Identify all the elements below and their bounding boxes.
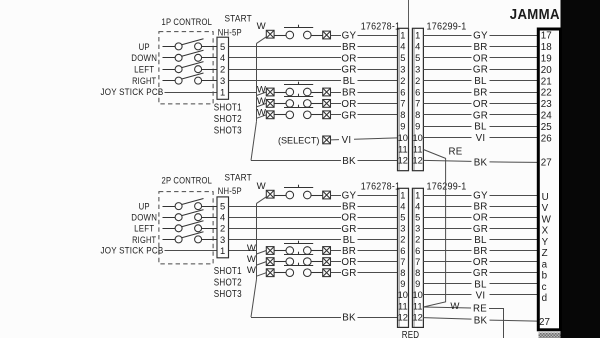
svg-text:11: 11 [398, 301, 408, 311]
wire RE exit to bottom edge [503, 308, 505, 338]
svg-text:2: 2 [400, 235, 405, 245]
svg-text:7: 7 [400, 99, 405, 109]
wire GR pin 8 to JAMMA b (2P) [423, 272, 471, 274]
svg-text:9: 9 [415, 279, 420, 289]
svg-text:2: 2 [415, 235, 420, 245]
svg-text:10: 10 [398, 133, 408, 143]
svg-text:SHOT1: SHOT1 [214, 266, 242, 277]
svg-text:OR: OR [341, 257, 356, 268]
wire OR joystick row pin 5 (2P) [229, 217, 342, 219]
svg-text:BL: BL [474, 279, 487, 290]
svg-text:7: 7 [415, 99, 420, 109]
wire BR pin 6 to JAMMA Z (2P) [423, 250, 471, 252]
svg-text:23: 23 [541, 99, 552, 110]
svg-text:GY: GY [342, 31, 357, 42]
push button SHOT3 (1P) [274, 105, 322, 119]
svg-text:a: a [542, 259, 548, 270]
svg-text:20: 20 [541, 65, 552, 76]
svg-text:BR: BR [342, 88, 356, 99]
svg-text:2: 2 [415, 76, 420, 86]
svg-text:9: 9 [400, 279, 405, 289]
svg-text:W: W [257, 107, 267, 118]
svg-text:6: 6 [400, 246, 405, 256]
wire GR pin 8 to JAMMA 24 (1P) [423, 114, 471, 116]
svg-text:X: X [542, 226, 549, 237]
svg-text:d: d [542, 293, 547, 304]
switch RIGHT (1P) [163, 73, 218, 84]
svg-text:2P CONTROL: 2P CONTROL [162, 176, 213, 187]
svg-text:12: 12 [413, 156, 423, 166]
connector NH-5P (1P) [217, 37, 229, 99]
svg-text:U: U [542, 192, 549, 203]
wire OR pin 5 to JAMMA 19 (1P) [423, 57, 471, 59]
wire BK 1P pin 12 to JAMMA 27 [423, 160, 471, 161]
svg-text:5: 5 [220, 201, 225, 212]
svg-text:GR: GR [473, 268, 488, 279]
wire 2P pin 11 to RE exit [423, 307, 471, 308]
svg-text:5: 5 [415, 213, 420, 223]
svg-text:9: 9 [415, 122, 420, 132]
wire GY pin 1 to JAMMA U (2P) [423, 195, 471, 197]
splice shot1-b (1P) [323, 88, 331, 96]
svg-text:JAMMA: JAMMA [510, 6, 560, 23]
svg-text:W: W [257, 181, 267, 192]
svg-text:19: 19 [541, 54, 552, 65]
svg-text:18: 18 [541, 42, 552, 53]
svg-text:1: 1 [220, 86, 225, 97]
splice shot2-b (2P) [323, 258, 331, 266]
svg-text:OR: OR [473, 213, 488, 224]
svg-text:4: 4 [220, 52, 225, 63]
svg-text:BL: BL [343, 76, 356, 87]
svg-text:BK: BK [474, 316, 488, 327]
svg-text:GY: GY [342, 191, 357, 202]
switch LEFT (1P) [163, 62, 218, 73]
wire VI to connector pin 10 [331, 139, 339, 141]
svg-text:10: 10 [413, 290, 423, 300]
svg-text:JOY STICK PCB: JOY STICK PCB [101, 87, 164, 98]
svg-text:3: 3 [220, 234, 225, 245]
svg-text:VI: VI [476, 290, 486, 301]
svg-text:BL: BL [474, 122, 487, 133]
JAMMA edge connector strip [538, 29, 560, 330]
svg-text:9: 9 [400, 122, 405, 132]
connector 176278-1 (2P) [398, 188, 409, 327]
svg-text:OR: OR [473, 257, 488, 268]
wire GY pin 1 to JAMMA 17 (1P) [423, 35, 471, 37]
wire BL pin 9 to JAMMA c (2P) [423, 283, 471, 285]
svg-text:START: START [224, 14, 252, 25]
svg-text:LEFT: LEFT [134, 65, 154, 76]
svg-text:SHOT3: SHOT3 [214, 126, 242, 137]
svg-text:NH-5P: NH-5P [218, 186, 242, 197]
svg-text:8: 8 [400, 268, 405, 278]
svg-text:6: 6 [400, 87, 405, 97]
svg-text:176299-1: 176299-1 [427, 182, 467, 193]
svg-text:11: 11 [413, 144, 423, 154]
svg-text:W: W [450, 301, 460, 312]
splice start-a (1P) [266, 30, 274, 38]
svg-text:BK: BK [474, 157, 488, 168]
svg-text:GY: GY [473, 31, 488, 42]
svg-text:24: 24 [541, 111, 552, 122]
svg-text:GR: GR [341, 110, 356, 121]
wire GR to connector pin 8 (2P) [331, 272, 341, 274]
push button SHOT2 (2P) [274, 252, 322, 266]
wire BL pin 2 to JAMMA Y (2P) [423, 239, 471, 241]
svg-text:BR: BR [342, 42, 356, 53]
svg-text:SHOT2: SHOT2 [214, 278, 242, 289]
svg-text:2: 2 [400, 76, 405, 86]
svg-text:1: 1 [400, 190, 405, 200]
wire BL joystick row pin 2 (1P) [229, 80, 342, 82]
svg-text:10: 10 [413, 133, 423, 143]
splice select [323, 136, 331, 144]
splice shot2-a (1P) [266, 100, 274, 108]
joystick enclosure dashed box (1P) [159, 32, 213, 104]
svg-text:1: 1 [400, 30, 405, 40]
splice start-a (2P) [266, 190, 274, 198]
svg-text:DOWN: DOWN [131, 53, 157, 64]
wire joystick common / pin 1 (1P) [165, 92, 218, 94]
svg-text:GR: GR [341, 65, 356, 76]
svg-text:3: 3 [400, 224, 405, 234]
ground bus (1P) [251, 37, 266, 161]
wire VI pin 10 to JAMMA 26 (1P) [423, 137, 471, 139]
svg-text:5: 5 [220, 41, 225, 52]
svg-text:4: 4 [415, 42, 420, 52]
svg-text:3: 3 [220, 75, 225, 86]
wire GR joystick row pin 3 (2P) [229, 228, 342, 230]
wire BR to connector pin 6 (1P) [331, 92, 341, 94]
wire off-page (top, between connector labels) [408, 0, 410, 28]
splice shot1-b (2P) [323, 247, 331, 255]
wire BK ground to pin 12 (1P) [251, 160, 341, 162]
svg-text:GY: GY [473, 191, 488, 202]
svg-text:RE: RE [449, 147, 463, 158]
svg-text:START: START [224, 172, 252, 183]
splice shot3-b (1P) [323, 111, 331, 119]
svg-text:BK: BK [342, 156, 356, 167]
svg-text:W: W [247, 243, 257, 254]
connector 176299-1 (1P) [412, 28, 423, 170]
svg-text:26: 26 [541, 133, 552, 144]
svg-text:21: 21 [541, 76, 552, 87]
svg-text:4: 4 [415, 201, 420, 211]
wire BL pin 9 to JAMMA 25 (1P) [423, 126, 471, 128]
svg-text:GR: GR [473, 224, 488, 235]
svg-text:3: 3 [415, 224, 420, 234]
svg-text:BR: BR [473, 246, 487, 257]
svg-text:UP: UP [139, 42, 150, 53]
svg-text:SHOT1: SHOT1 [214, 103, 242, 114]
splice shot3-b (2P) [323, 269, 331, 277]
svg-text:1: 1 [415, 30, 420, 40]
svg-text:W: W [542, 214, 552, 225]
svg-text:UP: UP [139, 202, 150, 213]
svg-text:2: 2 [220, 223, 225, 234]
ground bus (2P) [251, 197, 266, 317]
svg-text:5: 5 [415, 53, 420, 63]
svg-text:W: W [257, 21, 267, 32]
svg-text:1: 1 [415, 190, 420, 200]
wire BR joystick row pin 4 (2P) [229, 206, 342, 208]
splice shot1-a (2P) [266, 247, 274, 255]
splice shot3-a (2P) [266, 269, 274, 277]
splice start-b (2P) [323, 191, 331, 199]
connector 176278-1 (1P) [398, 28, 409, 170]
svg-text:GR: GR [341, 224, 356, 235]
svg-text:BK: BK [342, 313, 356, 324]
push button SHOT3 (2P) [274, 263, 322, 277]
svg-text:1P CONTROL: 1P CONTROL [162, 17, 213, 28]
wire joystick common / pin 1 (2P) [165, 250, 218, 252]
push button START (2P) [274, 185, 322, 199]
wire BL pin 2 to JAMMA 21 (1P) [423, 80, 471, 82]
JAMMA strip continuation hatch (bottom) [539, 333, 561, 338]
svg-text:BR: BR [473, 42, 487, 53]
svg-text:3: 3 [415, 65, 420, 75]
svg-text:176299-1: 176299-1 [427, 22, 467, 33]
switch LEFT (2P) [163, 221, 218, 232]
svg-text:4: 4 [400, 201, 405, 211]
svg-text:6: 6 [415, 246, 420, 256]
svg-text:Y: Y [542, 237, 549, 248]
svg-text:W: W [257, 85, 267, 96]
svg-text:c: c [542, 282, 547, 293]
svg-text:4: 4 [220, 212, 225, 223]
svg-text:176278-1: 176278-1 [361, 22, 401, 33]
wire RE (red) from 1P pin 11 down to 2P pin 11 [423, 150, 445, 308]
svg-text:OR: OR [473, 99, 488, 110]
svg-text:8: 8 [415, 110, 420, 120]
svg-text:JOY STICK PCB: JOY STICK PCB [101, 246, 164, 257]
wire BK ground to pin 12 (2P) [251, 317, 341, 319]
wire GR joystick row pin 3 (1P) [229, 69, 342, 71]
svg-text:b: b [542, 271, 548, 282]
svg-text:8: 8 [415, 268, 420, 278]
switch UP (2P) [163, 199, 218, 210]
svg-text:BR: BR [342, 202, 356, 213]
wire BR pin 4 to JAMMA V (2P) [423, 206, 471, 208]
wire VI pin 10 to JAMMA d (2P) [423, 294, 471, 296]
svg-text:12: 12 [398, 156, 408, 166]
svg-text:BR: BR [342, 246, 356, 257]
wire GR pin 3 to JAMMA X (2P) [423, 228, 471, 230]
svg-text:RIGHT: RIGHT [132, 235, 156, 246]
wire BR joystick row pin 4 (1P) [229, 46, 342, 48]
wire OR to connector pin 7 (2P) [331, 261, 341, 263]
svg-text:12: 12 [398, 312, 408, 322]
svg-text:OR: OR [341, 213, 356, 224]
wire BR pin 6 to JAMMA 22 (1P) [423, 92, 471, 94]
JAMMA pins 17-26 [541, 31, 552, 145]
svg-text:176278-1: 176278-1 [361, 182, 401, 193]
wire OR pin 7 to JAMMA a (2P) [423, 261, 471, 263]
switch RIGHT (2P) [163, 232, 218, 243]
push button SHOT1 (2P) [274, 241, 322, 255]
svg-text:22: 22 [541, 88, 552, 99]
svg-text:17: 17 [541, 31, 552, 42]
switch DOWN (2P) [163, 210, 218, 221]
wire BR pin 4 to JAMMA 18 (1P) [423, 46, 471, 48]
svg-text:GR: GR [473, 65, 488, 76]
svg-text:2: 2 [220, 64, 225, 75]
svg-text:OR: OR [473, 53, 488, 64]
svg-text:VI: VI [476, 133, 486, 144]
wire BK 2P pin 12 to JAMMA 27 (bottom) [423, 318, 471, 320]
svg-text:8: 8 [400, 110, 405, 120]
push button SHOT2 (1P) [274, 94, 322, 108]
wire GR pin 3 to JAMMA 20 (1P) [423, 69, 471, 71]
svg-text:BL: BL [474, 76, 487, 87]
svg-text:GR: GR [473, 110, 488, 121]
svg-text:W: W [257, 96, 267, 107]
svg-text:25: 25 [541, 122, 552, 133]
wire GY to connector pin 1 (2P) [331, 195, 341, 197]
connector 176299-1 (2P) [412, 188, 423, 327]
splice shot2-b (1P) [323, 100, 331, 108]
svg-text:10: 10 [398, 290, 408, 300]
svg-text:7: 7 [400, 257, 405, 267]
wire GY to connector pin 1 (1P) [331, 35, 341, 37]
svg-text:12: 12 [413, 312, 423, 322]
scanner black margin [561, 0, 600, 338]
splice start-b (1P) [323, 31, 331, 39]
svg-text:RIGHT: RIGHT [132, 76, 156, 87]
svg-text:7: 7 [415, 257, 420, 267]
svg-text:RE: RE [473, 303, 487, 314]
wire GR to connector pin 8 (1P) [331, 114, 341, 116]
svg-text:OR: OR [341, 99, 356, 110]
svg-text:DOWN: DOWN [131, 213, 157, 224]
svg-text:W: W [247, 254, 257, 265]
svg-text:4: 4 [400, 42, 405, 52]
push button SHOT1 (1P) [274, 82, 322, 96]
svg-text:Z: Z [542, 248, 548, 259]
svg-text:BR: BR [473, 202, 487, 213]
splice shot2-a (2P) [266, 258, 274, 266]
svg-text:(SELECT): (SELECT) [278, 135, 320, 145]
wire OR pin 5 to JAMMA W (2P) [423, 217, 471, 219]
joystick enclosure dashed box (2P) [159, 192, 213, 264]
svg-text:5: 5 [400, 213, 405, 223]
svg-text:RED: RED [402, 330, 420, 338]
JAMMA pins U-d [542, 192, 552, 304]
svg-text:BL: BL [343, 235, 356, 246]
svg-text:SHOT2: SHOT2 [214, 114, 242, 125]
push button START (1P) [274, 25, 322, 39]
svg-text:5: 5 [400, 53, 405, 63]
splice shot1-a (1P) [266, 88, 274, 96]
svg-text:27: 27 [539, 317, 550, 328]
svg-text:SHOT3: SHOT3 [214, 289, 242, 300]
svg-text:1: 1 [220, 245, 225, 256]
svg-text:27: 27 [541, 158, 552, 169]
connector NH-5P (2P) [217, 197, 229, 258]
svg-text:11: 11 [398, 144, 408, 154]
wire BR to connector pin 6 (2P) [331, 250, 341, 252]
svg-text:VI: VI [342, 135, 352, 146]
svg-text:11: 11 [413, 301, 423, 311]
svg-text:6: 6 [415, 87, 420, 97]
switch DOWN (1P) [163, 50, 218, 61]
svg-text:BR: BR [473, 88, 487, 99]
wire OR pin 7 to JAMMA 23 (1P) [423, 103, 471, 105]
svg-text:3: 3 [400, 65, 405, 75]
svg-text:OR: OR [341, 53, 356, 64]
splice shot3-a (1P) [266, 111, 274, 119]
svg-text:LEFT: LEFT [134, 224, 154, 235]
wire OR joystick row pin 5 (1P) [229, 57, 342, 59]
wire OR to connector pin 7 (1P) [331, 103, 341, 105]
wire BL joystick row pin 2 (2P) [229, 239, 342, 241]
switch UP (1P) [163, 39, 218, 50]
svg-text:V: V [542, 203, 549, 214]
svg-text:BL: BL [474, 235, 487, 246]
svg-text:W: W [247, 265, 257, 276]
svg-text:GR: GR [341, 268, 356, 279]
